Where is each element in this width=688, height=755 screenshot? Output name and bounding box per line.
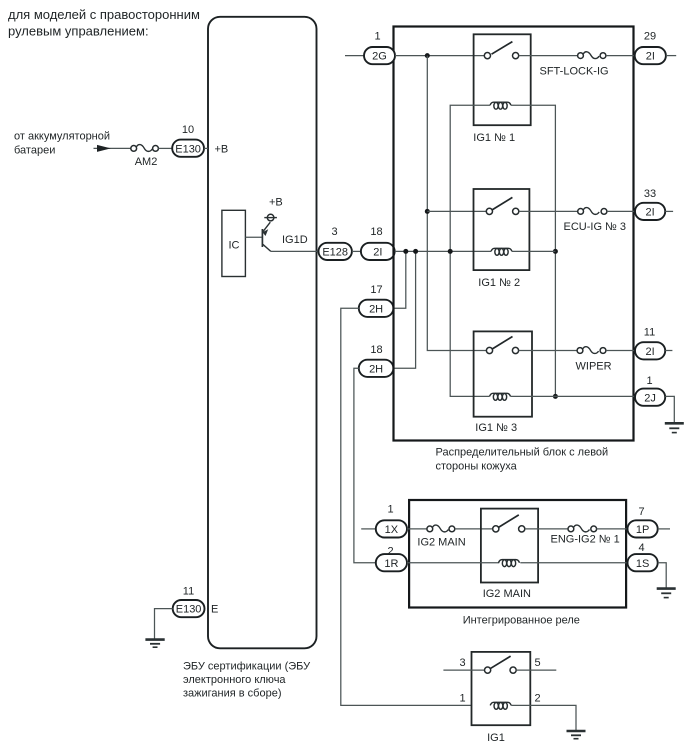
svg-text:от аккумуляторной: от аккумуляторной (14, 131, 110, 143)
junction dot 2G feed (425, 53, 430, 58)
svg-text:18: 18 (370, 344, 382, 356)
wire 2G to relay IG1 No1 contact (395, 55, 485, 57)
arrow battery direction (97, 145, 111, 152)
connector 1P pin 7 (628, 520, 658, 537)
IC U2 box (222, 210, 246, 276)
wire 2G stub (345, 55, 364, 57)
connector 2I pin 18 (361, 243, 395, 260)
wire contact to fuse (519, 210, 578, 212)
wire relay feed vertical (427, 56, 486, 351)
svg-text:IC: IC (229, 239, 240, 251)
junction dot (403, 249, 408, 254)
junction dot (413, 249, 418, 254)
power +B terminal for Q1 (264, 197, 282, 221)
svg-text:ENG-IG2 № 1: ENG-IG2 № 1 (551, 533, 620, 545)
ground 1S (657, 589, 676, 598)
svg-text:АМ2: АМ2 (135, 156, 158, 168)
svg-text:29: 29 (644, 30, 656, 42)
svg-text:1: 1 (459, 693, 465, 705)
wire E130 to ground (155, 609, 173, 639)
junction dot (425, 209, 430, 214)
svg-text:WIPER: WIPER (576, 360, 612, 372)
svg-text:2I: 2I (646, 207, 655, 219)
note: title text (8, 7, 200, 38)
svg-text:2H: 2H (369, 363, 383, 375)
ground IG1 (567, 731, 586, 739)
fuse ENG-IG2 No1 (551, 525, 620, 545)
wire 1X stub (361, 528, 376, 530)
wire 1X to fuse (407, 528, 427, 530)
svg-text:ECU-IG № 3: ECU-IG № 3 (564, 221, 627, 233)
relay IG2 MAIN contacts (493, 515, 525, 532)
wire 2H17 right to node (393, 251, 405, 308)
svg-text:E130: E130 (176, 604, 202, 616)
svg-text:IG2 MAIN: IG2 MAIN (417, 537, 465, 549)
distribution block box (394, 27, 634, 441)
wire battery feed (94, 147, 131, 149)
wire fuse to 2I (607, 210, 635, 212)
junction dot coil net (448, 249, 453, 254)
integrated relay box (409, 500, 626, 608)
svg-text:IG1 № 2: IG1 № 2 (478, 277, 520, 289)
svg-text:2: 2 (534, 693, 540, 705)
connector 2I pin 33 (635, 203, 665, 220)
note: distribution block caption (436, 447, 609, 473)
svg-text:18: 18 (370, 226, 382, 238)
svg-text:11: 11 (644, 326, 655, 338)
switch IG1 coil (490, 702, 511, 709)
connector 1X pin 1 (376, 520, 407, 537)
svg-text:11: 11 (183, 585, 194, 597)
svg-text:2H: 2H (369, 303, 383, 315)
wire 2H17 left drop to IG1 coil (341, 308, 472, 705)
connector 2I pin 29 (635, 47, 666, 64)
fuse AM2 (131, 145, 159, 168)
svg-text:5: 5 (534, 657, 540, 669)
svg-text:7: 7 (638, 506, 644, 518)
svg-text:2I: 2I (646, 346, 655, 358)
svg-text:2I: 2I (646, 51, 655, 63)
wire 2H18 left drop to 1R (354, 368, 376, 562)
wire E130 to ECU (204, 147, 208, 149)
relay IG1 No1 contacts (484, 42, 518, 59)
svg-text:IG1: IG1 (487, 732, 505, 744)
svg-text:SFT-LOCK-IG: SFT-LOCK-IG (540, 65, 609, 77)
wire coil to 2J (511, 395, 636, 397)
ground E130 (145, 640, 164, 648)
wire IG1 contact stub left (443, 669, 484, 671)
svg-text:электронного ключа: электронного ключа (183, 674, 286, 686)
wire coil to right loop (512, 250, 555, 252)
relay IG1 No1 coil (490, 102, 511, 109)
note: ECU caption (183, 661, 311, 700)
relay IG1 No3 coil (490, 393, 511, 400)
wire E128 to 2I (352, 250, 361, 252)
svg-text:для моделей с правосторонним: для моделей с правосторонним (8, 7, 200, 22)
wire fuse to 2I (606, 350, 635, 352)
svg-text:+B: +B (215, 143, 229, 155)
svg-text:Распределительный блок с левой: Распределительный блок с левой (436, 447, 609, 459)
wire 1S to ground (658, 563, 667, 588)
wire AM2 to E130 (158, 147, 172, 149)
svg-text:1: 1 (387, 503, 393, 515)
switch IG1 contacts (485, 656, 517, 673)
fuse IG2 MAIN (417, 525, 465, 549)
svg-text:3: 3 (459, 657, 465, 669)
wire IG1 contact stub right (516, 669, 556, 671)
wire coil loop right (511, 105, 555, 396)
svg-text:IG1 № 3: IG1 № 3 (475, 422, 517, 434)
connector 1R pin 2 (376, 554, 407, 571)
wire 2I to relay coil net (395, 250, 491, 252)
svg-text:1X: 1X (385, 524, 399, 536)
relay IG1 No2 coil (491, 248, 512, 255)
wire 2I29 stub (666, 55, 676, 57)
switch IG1 box (472, 652, 531, 725)
relay IG1 No1 box (474, 34, 531, 125)
fuse WIPER (576, 347, 612, 373)
svg-text:батареи: батареи (14, 145, 55, 157)
junction dot (553, 394, 558, 399)
svg-text:1: 1 (374, 31, 380, 43)
svg-text:IG1D: IG1D (282, 234, 308, 246)
wire 2I11 stub (665, 350, 672, 352)
connector 2I pin 11 (635, 342, 665, 359)
wire 2H18 right to node (393, 251, 415, 368)
wire coil to 1S (520, 562, 627, 564)
fuse ECU-IG No3 (564, 208, 627, 234)
wire coil loop left (450, 105, 490, 396)
connector E130 pin 10 (172, 140, 204, 157)
wire 1R to relay coil (407, 562, 499, 564)
relay IG2 MAIN coil (499, 560, 520, 567)
svg-text:2J: 2J (644, 392, 656, 404)
svg-text:стороны кожуха: стороны кожуха (436, 460, 518, 472)
connector 2G pin 1 (364, 47, 395, 64)
wire contact to fuse (519, 55, 578, 57)
svg-text:10: 10 (182, 124, 194, 136)
connector E128 pin 3 (319, 243, 352, 260)
wire 1P stub (658, 528, 670, 530)
transistor Q1 (262, 222, 270, 251)
svg-text:рулевым управлением:: рулевым управлением: (8, 23, 149, 38)
svg-text:17: 17 (370, 284, 382, 296)
svg-text:IG1 № 1: IG1 № 1 (473, 132, 515, 144)
connector 2H pin 18 (359, 360, 394, 377)
svg-text:1R: 1R (384, 558, 398, 570)
wire contact to fuse ENG (525, 528, 568, 530)
wire IC to transistor base (245, 236, 261, 238)
wire 2J to ground (665, 396, 674, 422)
wire fuse to 1P (597, 528, 628, 530)
svg-text:E128: E128 (322, 247, 348, 259)
svg-text:4: 4 (638, 542, 644, 554)
wire contact to fuse (519, 350, 577, 352)
connector E130 pin 11 (173, 600, 205, 617)
wire fuse to 2I (606, 55, 635, 57)
relay IG1 No2 contacts (486, 197, 519, 214)
relay IG1 No2 box (474, 189, 530, 270)
note: battery feed text (14, 131, 110, 157)
relay IG1 No3 box (474, 331, 532, 416)
wire fuse to relay contact (455, 528, 493, 530)
relay IG2 MAIN box (481, 509, 538, 583)
wire 2I33 stub (665, 210, 673, 212)
fuse SFT-LOCK-IG (540, 52, 609, 78)
connector 1S pin 4 (628, 554, 658, 571)
relay IG1 No3 contacts (486, 337, 518, 354)
svg-text:1S: 1S (636, 558, 649, 570)
svg-text:+B: +B (269, 197, 283, 209)
ECU U1 box (ЭБУ сертификации) (208, 17, 317, 649)
svg-text:33: 33 (644, 188, 656, 200)
connector 2J pin 1 (635, 389, 665, 406)
wire feed to relay IG1 No2 contact (427, 210, 486, 212)
svg-text:1: 1 (646, 375, 652, 387)
svg-text:2G: 2G (372, 51, 387, 63)
svg-text:Интегрированное реле: Интегрированное реле (463, 614, 580, 626)
wire IG1D emitter to E128 (271, 250, 319, 252)
svg-text:1P: 1P (636, 524, 649, 536)
svg-text:3: 3 (331, 226, 337, 238)
svg-text:E: E (211, 604, 218, 616)
svg-text:E130: E130 (175, 143, 201, 155)
svg-text:IG2 MAIN: IG2 MAIN (483, 588, 531, 600)
connector 2H pin 17 (359, 300, 394, 317)
ground 2J (665, 423, 684, 432)
svg-text:ЭБУ сертификации (ЭБУ: ЭБУ сертификации (ЭБУ (183, 661, 311, 673)
svg-text:зажигания в сборе): зажигания в сборе) (183, 688, 282, 700)
wire IG1 coil to ground (511, 705, 576, 730)
svg-text:2I: 2I (373, 247, 382, 259)
junction dot (553, 249, 558, 254)
